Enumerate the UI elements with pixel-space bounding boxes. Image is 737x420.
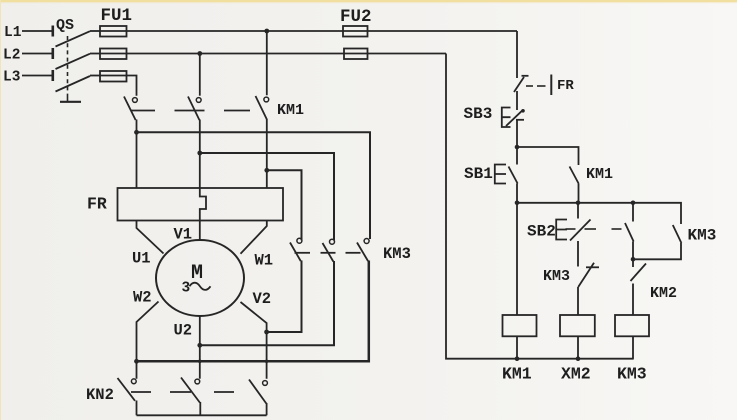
wire tap C to KM3 contact 1 [267, 170, 302, 240]
contactor KM3 label [383, 245, 411, 263]
fuse FU2-1 [343, 26, 368, 37]
coil KM3 [615, 315, 649, 359]
contactor KM1 main contact 3 [256, 96, 269, 120]
wire KM3 contact 2 to U2 node [200, 261, 334, 345]
wire L3 lead-in [22, 75, 52, 77]
junction on L1 bus [264, 29, 269, 34]
relay FR contact label [557, 78, 574, 94]
contactor KM3 main contact 3 [357, 239, 369, 262]
svg-text:W2: W2 [133, 289, 152, 307]
KM3 linkage dashes [295, 252, 361, 254]
switch QS pole 2 [53, 48, 100, 69]
contact KM1 aux label [586, 166, 613, 183]
wire phase A column [136, 120, 138, 189]
junction phase A tap [134, 130, 139, 135]
junction below SB3 [515, 145, 520, 150]
coil XM2 label [561, 365, 591, 384]
fuse FU2 label [340, 7, 372, 27]
junction U2 node [197, 343, 202, 348]
wire branch to KM1 aux [517, 147, 579, 165]
wire L3 to first contactor pole [100, 76, 137, 96]
switch QS pole 3 [53, 70, 100, 92]
terminal label W1 [255, 252, 274, 270]
junction below SB2 NO [631, 257, 636, 262]
wire FR contact to SB3 [516, 91, 518, 110]
wire L1 lead-in [22, 30, 52, 32]
contactor KM1 main contact 1 [124, 97, 137, 121]
wire control bus rail [517, 203, 681, 224]
terminal label U2 [174, 322, 193, 340]
svg-text:M: M [191, 262, 203, 285]
fuse FU1 label [101, 6, 133, 26]
svg-text:W1: W1 [255, 252, 274, 270]
coil KM3 label [617, 365, 647, 384]
junction U2 rail crossing [198, 360, 202, 364]
svg-text:3: 3 [182, 280, 191, 296]
KM2 linkage dashes [131, 391, 234, 393]
SB2 linkage dashes [566, 228, 622, 230]
svg-text:SB1: SB1 [464, 165, 493, 183]
svg-text:SB2: SB2 [527, 223, 556, 241]
coil KM2 (XM2) [560, 315, 595, 359]
svg-text:FR: FR [87, 195, 107, 214]
svg-text:QS: QS [56, 17, 74, 34]
terminal label W2 [133, 289, 152, 307]
fuse FU1-2 [100, 49, 127, 60]
contactor KM2 label [86, 386, 114, 404]
contact SB2 NO (right column) [625, 203, 634, 259]
relay FR NC contact [514, 75, 551, 96]
contact KM3 aux NO (middle column) [578, 263, 599, 315]
wire control neutral column from L2 [446, 54, 634, 359]
switch QS pole 1 [53, 26, 100, 47]
terminal label V2 [253, 290, 272, 308]
motor M circle [156, 240, 244, 316]
wire FR to motor U1 [137, 221, 164, 254]
wire motor U2 down [199, 316, 201, 379]
button SB3 NC [502, 108, 525, 148]
contact KM3 aux label [543, 268, 570, 285]
wire control phase column from L1 [516, 31, 518, 78]
terminal label U1 [132, 250, 151, 268]
coil KM1 label [502, 365, 532, 384]
svg-text:U2: U2 [174, 322, 193, 340]
KM1 linkage dashes [132, 110, 251, 112]
svg-text:KM3: KM3 [688, 227, 717, 245]
node L1 label [4, 25, 22, 41]
wire motor W2 down [137, 302, 159, 379]
relay FR label [87, 195, 107, 214]
contactor KM3 main contact 1 [290, 238, 302, 261]
terminal label V1 [174, 226, 193, 244]
switch QS label [56, 17, 74, 34]
motor 3~ marking [182, 280, 211, 296]
svg-text:FU2: FU2 [340, 7, 372, 27]
junction rail at SB2 column [576, 201, 581, 206]
contactor KM1 label [277, 102, 304, 119]
wire KM3 contact 1 to V2 node [267, 261, 302, 333]
svg-text:V2: V2 [253, 290, 272, 308]
svg-text:V1: V1 [174, 226, 193, 244]
svg-text:KN2: KN2 [86, 386, 114, 404]
svg-text:KM1: KM1 [502, 365, 532, 384]
wire tap A to KM3 contact 3 [137, 132, 371, 239]
junction V2 node [264, 330, 269, 335]
contactor KM2 main contact 2 [181, 378, 200, 416]
node L3 label [3, 70, 20, 86]
motor M letter [191, 262, 203, 285]
svg-text:L2: L2 [3, 48, 20, 64]
wire phase C column [266, 119, 268, 188]
svg-text:U1: U1 [132, 250, 151, 268]
svg-text:L3: L3 [3, 70, 20, 86]
button SB2 label [527, 223, 556, 241]
svg-text:KM3: KM3 [617, 365, 647, 384]
left border strip [0, 0, 1, 420]
junction rail-bottom KM1 [515, 356, 520, 361]
button SB3 label [464, 105, 493, 123]
wire KM3 contact 3 to W2 node [137, 261, 369, 362]
wire L2 lead-in [22, 53, 52, 55]
svg-text:KM3: KM3 [543, 268, 570, 285]
wire tap B to KM3 contact 2 [200, 153, 334, 240]
svg-text:FU1: FU1 [101, 6, 133, 26]
wire L1 bus [100, 30, 517, 32]
fuse FU1-3 [100, 71, 127, 82]
switch QS linkage and handle [60, 36, 81, 102]
contactor KM2 main contact 1 [118, 378, 137, 415]
svg-text:KM1: KM1 [586, 166, 613, 183]
button SB1 NO [495, 147, 518, 203]
fuse FU2-2 [344, 49, 368, 60]
wire FR to motor V1 [199, 221, 201, 241]
svg-text:KM3: KM3 [383, 245, 411, 263]
contactor KM1 main contact 2 [188, 97, 201, 121]
svg-text:FR: FR [557, 78, 574, 94]
junction rail-bottom XM2 [576, 356, 581, 361]
contactor KM2 main contact 3 [249, 380, 267, 416]
wire phase B column [199, 120, 201, 189]
junction rail at KM2 column [631, 201, 636, 206]
coil KM1 [503, 203, 537, 359]
contact KM3 latch label [688, 227, 717, 245]
junction rail at KM1 column [515, 201, 520, 206]
wire L1 drop to pole 3 [266, 31, 268, 95]
wire FR to motor W1 [241, 221, 267, 254]
contact KM2 interlock NC [631, 259, 647, 315]
junction phase C tap [264, 168, 269, 173]
top border strip [0, 0, 737, 2]
wire L2 drop to pole 2 [199, 54, 201, 96]
node L2 label [3, 48, 20, 64]
junction V2 rail crossing [265, 360, 269, 364]
button SB2 NC [556, 203, 590, 267]
contact KM1 aux NO [570, 167, 579, 203]
wire motor V2 down [241, 302, 267, 379]
contact KM3 latch NO (far right) [633, 225, 681, 259]
relay FR heater box [118, 188, 284, 221]
button SB1 label [464, 165, 493, 183]
svg-text:XM2: XM2 [561, 365, 591, 384]
junction W2 node [134, 359, 139, 364]
KM2 star bridge bar [137, 414, 267, 416]
svg-text:L1: L1 [4, 25, 22, 41]
svg-text:KM1: KM1 [277, 102, 304, 119]
FR heater element jog [200, 188, 206, 221]
svg-text:KM2: KM2 [650, 285, 677, 302]
wire L2 bus [100, 53, 446, 55]
contactor KM3 main contact 2 [323, 239, 335, 261]
svg-text:SB3: SB3 [464, 105, 493, 123]
junction phase B tap [197, 151, 202, 156]
junction on L2 bus [197, 51, 202, 56]
contact KM2 interlock label [650, 285, 677, 302]
fuse FU1-1 [100, 26, 127, 37]
